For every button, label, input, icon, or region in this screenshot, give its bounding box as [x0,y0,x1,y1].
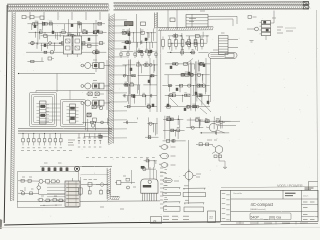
svg-text:29: 29 [153,219,157,223]
svg-text:V003 / POWER: V003 / POWER [277,184,303,188]
svg-text:Hersteller: Hersteller [234,192,243,195]
svg-text:Datum: Datum [303,195,309,198]
svg-text:540P ... __ (00) Ga: 540P ... __ (00) Ga [251,215,282,219]
svg-text:(SABA-Ersatzteil): (SABA-Ersatzteil) [250,208,266,211]
svg-text:4C-compact: 4C-compact [251,202,274,207]
svg-text:22: 22 [209,215,213,219]
